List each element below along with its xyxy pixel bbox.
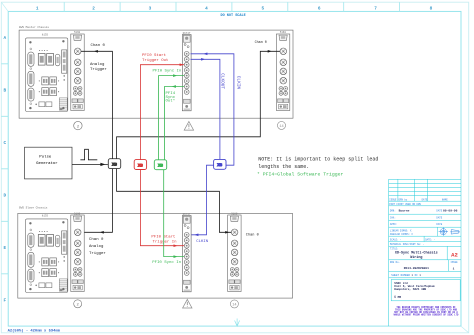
note symbol: warning triangle (slave) [183,299,192,308]
arrowhead out of master 6674T CLKOUT [201,58,205,61]
arrowhead into master left Chan0 [94,50,98,53]
title block: approved row [390,223,443,226]
svg-text:Bourne: Bourne [399,210,410,213]
svg-text:A: A [3,36,6,41]
svg-text:MATERIAL SPEC/PART No: -: MATERIAL SPEC/PART No: - [390,243,425,246]
label: Analog Trigger (master left) [90,62,107,72]
svg-text:WHOLE WITHOUT PRIOR WRITTEN CO: WHOLE WITHOUT PRIOR WRITTEN CONSENT OF S… [394,314,459,317]
wire: master PFI4 sync out to splitter SP3 (green) [165,87,185,160]
svg-text:DO NOT SCALE: DO NOT SCALE [221,14,246,18]
svg-text:5160: 5160 [280,31,287,34]
wire: master left 5160 Chan0 to splitter SP1 (black) [81,51,112,158]
svg-text:ISSUE: ISSUE [450,261,458,264]
svg-text:5: 5 [261,6,264,11]
title block frame [389,179,461,326]
label: Chan 0 (master right) [255,40,267,45]
splitter SP4 X8 (blue) [214,159,226,169]
svg-text:XD-Sync Multi-Chassis: XD-Sync Multi-Chassis [395,251,438,256]
label: CLKIN (slave, blue) [196,240,209,244]
svg-text:1: 1 [453,267,455,270]
note symbol: warning triangle (master) [184,122,193,131]
svg-text:© MM: © MM [394,295,401,299]
svg-text:14: 14 [279,125,283,129]
svg-text:Hampshire, SO21 3BH: Hampshire, SO21 3BH [394,287,426,291]
label: Chan 0 (slave right) [246,232,259,237]
note text: PFI4 global software trigger (green) [257,171,343,177]
module U2: 5160 scope (master left) [71,31,84,111]
arrowhead into slave left Chan0 [100,231,104,234]
svg-text:CHK:: CHK: [390,216,396,219]
arrowhead into slave right Chan0 [225,231,229,234]
left margin zone ticks [1,64,8,274]
svg-text:ANGULAR DIMNS: X: ANGULAR DIMNS: X [390,233,414,236]
wire: master PFI0 sync in from splitter SP3 (green) [159,76,185,160]
pulse waveform symbol [80,149,97,160]
svg-text:Out*: Out* [166,99,176,104]
svg-text:A2: A2 [451,251,458,258]
sheet size letter A2 (red) [451,251,458,258]
svg-text:3: 3 [149,6,152,11]
top margin zone ticks [64,2,399,11]
svg-text:PFI0 Sync In: PFI0 Sync In [153,69,182,73]
wire: master CLKOUT to splitter SP4 (blue) [191,59,220,159]
arrowhead into slave 6674T PFI0 [174,244,178,247]
label: PFI4 Sync Out* (green) [166,92,176,104]
title block: checked row [390,216,443,219]
svg-text:NOTE: It is important to keep: NOTE: It is important to keep split lead [258,156,378,162]
note symbol: circled 14 (slave) [230,300,238,308]
svg-text:Trigger In: Trigger In [153,240,178,245]
svg-text:DATE: DATE [436,210,442,213]
svg-text:Wiring: Wiring [410,255,422,260]
svg-text:APPD:: APPD: [390,223,397,226]
svg-text:2: 2 [77,125,80,129]
svg-text:14: 14 [232,303,236,307]
svg-text:SCALE: -: SCALE: - [390,238,402,241]
svg-text:NAME: NAME [442,198,448,201]
svg-text:4: 4 [205,6,208,11]
title block: dimensions notes [390,230,414,236]
arrowhead out of master 6674T sync out [172,85,176,88]
svg-text:2: 2 [77,303,80,307]
chassis: GWS Slave Chassis [18,205,293,298]
title block: sheet number row [391,274,421,277]
svg-text:7: 7 [374,6,377,11]
module U8: 5160 scope (slave right) [228,212,241,291]
wire: master CLKIN from splitter SP4 (blue) [191,54,234,165]
bottom centring mark [235,319,240,327]
title block revision header text [389,198,448,201]
note: DO NOT SCALE [221,14,246,18]
note symbol: circled 14 (master) [278,121,286,129]
svg-text:2: 2 [92,6,95,11]
note text: keep split leads equal [258,156,378,169]
wire: splitter SP4 to slave CLKIN (blue) [192,165,214,235]
svg-text:Trigger: Trigger [89,251,106,256]
svg-text:1: 1 [36,6,39,11]
svg-text:DATE: DATE [422,198,428,201]
arrowhead into master 6674T PFI0 [180,63,184,66]
label: PFI0 Start Trigger In (red) [151,234,177,244]
pulse generator PG1 [25,147,73,179]
arrowhead into slave 6674T CLKIN [194,233,198,236]
splitter SP1 X8 (black) [108,159,120,169]
svg-text:8: 8 [430,6,433,11]
svg-text:A2(50%) - 420mm x 594mm: A2(50%) - 420mm x 594mm [8,328,61,333]
label: PFI0 Start Trigger Out (red) [142,53,168,63]
arrowhead into master right Chan0 [268,50,272,53]
company address box [391,280,460,301]
svg-text:* PFI4=Global Software Trigger: * PFI4=Global Software Trigger [257,171,343,177]
svg-text:DATE: -: DATE: - [425,238,436,241]
title block: drawn row [390,210,443,213]
title block: drg no row [390,261,458,264]
svg-text:DRN by: DRN by [399,198,408,201]
svg-text:Chan 0: Chan 0 [89,237,104,242]
sheet size note bottom-left [8,328,61,333]
svg-text:E: E [3,246,6,251]
svg-text:Pulse: Pulse [39,154,52,159]
splitter SP2 X8 (red) [134,160,146,170]
svg-text:CLKIN: CLKIN [196,240,209,244]
svg-text:ISSUE: ISSUE [389,198,397,201]
module U4: 5160 scope (master right) [276,31,289,111]
title block: scale row [390,238,436,241]
svg-text:CLKIN: CLKIN [235,76,240,90]
svg-text:6: 6 [318,6,321,11]
svg-text:Chan 0: Chan 0 [91,43,106,48]
label: CLKOUT (vertical, blue) [220,73,225,89]
svg-text:DRG No.: DRG No. [390,261,400,264]
module U6: 5160 scope (slave left) [71,212,84,291]
svg-text:GWS Slave Chassis: GWS Slave Chassis [19,205,48,209]
arrow into black splitter [100,163,105,166]
top margin zone numbers 1-8 [36,6,433,11]
wire: pulse generator output to splitter X8 (black) [72,163,108,165]
module U7: 6674T timing (slave) [182,213,191,292]
note symbol: circled 2 (master) [74,121,82,129]
wire: splitter SP3 to slave PFI0 sync in (green) [164,170,184,257]
svg-text:Analog: Analog [89,244,104,249]
svg-text:lengths the same.: lengths the same. [258,164,309,170]
label: PFI0 Sync In (slave, green) [152,261,181,265]
splitter SP3 X8 (green) [154,160,166,170]
svg-text:B: B [3,89,6,94]
svg-text:Chan 0: Chan 0 [246,232,259,237]
title block: material spec row [390,243,425,246]
svg-text:Trigger: Trigger [90,67,107,72]
svg-text:C: C [3,141,6,146]
title block: title [390,247,399,250]
svg-text:Trigger Out: Trigger Out [142,58,168,63]
wire: slave left 5160 Chan0 from splitter SP1 (black) [84,169,112,233]
svg-text:Generator: Generator [36,161,58,166]
copyright note (purple) [394,306,459,317]
module U1: 8135 controller (master) [25,33,67,111]
svg-text:DATE: DATE [436,223,442,226]
svg-text:DS14-092DVG001: DS14-092DVG001 [404,267,429,270]
arrowhead into master 6674T sync in [173,74,177,77]
third angle projection symbol [439,228,460,236]
svg-text:PFI0 Sync In: PFI0 Sync In [152,261,181,265]
wire: slave right 5160 Chan0 from splitter SP1 (black) [117,169,232,233]
svg-text:Chan 0: Chan 0 [255,40,267,45]
arrowhead into slave 6674T sync in [174,255,178,258]
wire: master PFI0 start trigger out to splitter SP2 (red) [140,65,184,160]
svg-text:Analog: Analog [90,62,105,67]
svg-text:F: F [3,299,6,304]
svg-text:TITLE:: TITLE: [390,247,399,250]
svg-text:DATE: DATE [436,216,442,219]
label: Chan 0 (master left) [91,43,106,48]
module U5: 8135 controller (slave) [25,214,67,292]
svg-text:D: D [3,194,6,199]
svg-text:5160: 5160 [74,31,81,34]
svg-text:SHEET NUMBER 1 OF 1: SHEET NUMBER 1 OF 1 [391,274,421,277]
svg-text:PART FIRST USED ON DRN: PART FIRST USED ON DRN [389,203,421,206]
label: CLKIN (vertical, blue) [235,76,240,90]
arrowhead into master 6674T CLKIN [203,52,207,55]
svg-text:8135: 8135 [42,214,49,217]
svg-text:CLKOUT: CLKOUT [220,73,225,89]
wire: splitter SP2 to slave PFI0 trigger in (red) [140,170,184,246]
chassis: GWS Master Chassis [19,25,293,118]
label: PFI0 Sync In (master, green) [153,69,182,73]
title block: part first used on [389,203,421,206]
svg-text:DRN:: DRN: [390,210,396,213]
wire: master right 5160 Chan0 loop to splitter SP1 (black) [117,51,280,158]
note symbol: circled 2 (slave) [74,300,82,308]
module U3: 6674T timing (master) [182,32,191,111]
label: Chan 0 Analog Trigger (slave left) [89,237,106,256]
svg-text:PFI0 Start: PFI0 Start [142,53,166,58]
svg-text:8135: 8135 [42,33,49,36]
svg-text:GWS Master Chassis: GWS Master Chassis [19,25,50,29]
left margin zone letters A-F [3,36,6,304]
svg-text:09-09-06: 09-09-06 [443,210,458,213]
